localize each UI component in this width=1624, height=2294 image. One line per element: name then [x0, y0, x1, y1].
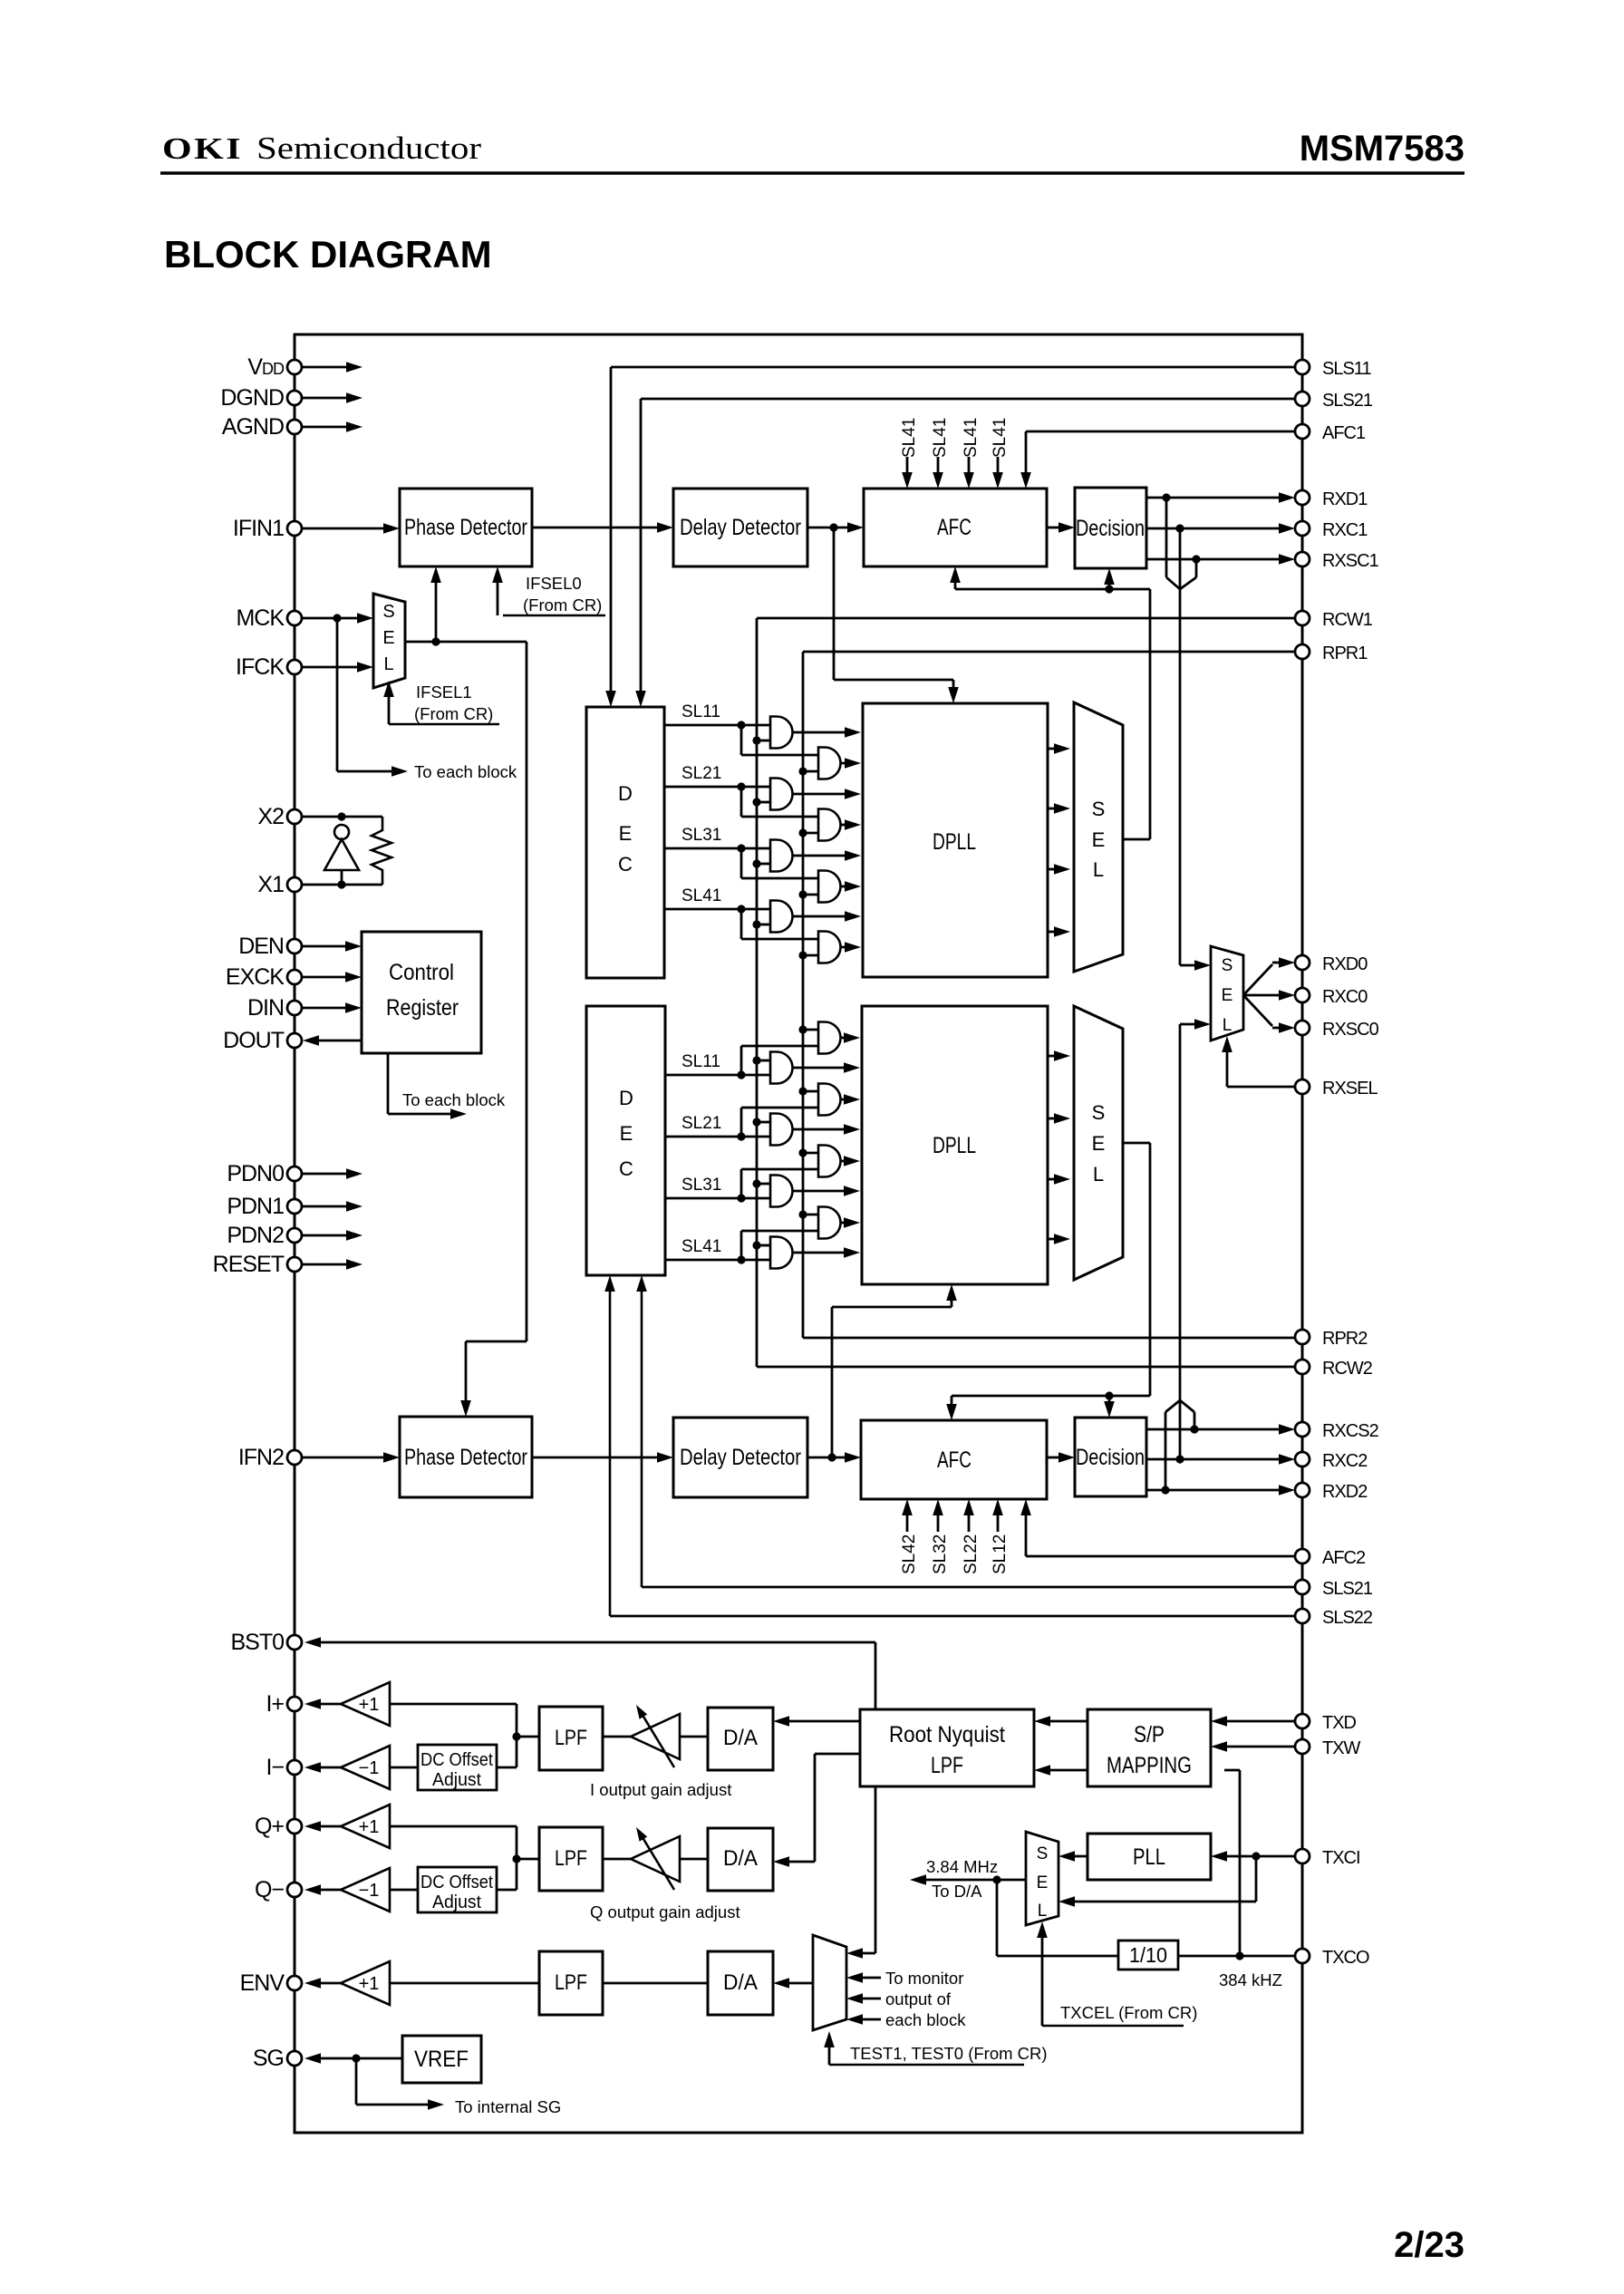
wire EXCK to CR [302, 976, 348, 979]
block SP MAPPING [1087, 1709, 1211, 1786]
mux SEL 2 [1074, 1006, 1123, 1280]
gate AND2 b2 [770, 1114, 793, 1146]
wire DPLL2 to SEL2 2 [1048, 1118, 1057, 1120]
svg-text:TXCI: TXCI [1322, 1848, 1360, 1868]
svg-text:Phase Detector: Phase Detector [404, 1445, 527, 1470]
wire PDN0 stub [302, 1173, 347, 1176]
wire PLL to SELTX [1072, 1855, 1087, 1858]
junction RPR rail g4 b1 [798, 951, 807, 959]
wire AFC1 net [1026, 431, 1295, 433]
pin SLS22 [1295, 1609, 1310, 1623]
wire AND1 out b1 [793, 731, 847, 734]
svg-text:E: E [1037, 1873, 1049, 1892]
svg-text:MAPPING: MAPPING [1107, 1753, 1192, 1778]
svg-text:Q+: Q+ [255, 1814, 284, 1839]
pin PDN2 [287, 1228, 302, 1243]
gate AND4 b2 [770, 1237, 793, 1269]
junction RPR rail g2 b2 [798, 1087, 807, 1095]
block Phase Detector 2 [400, 1417, 532, 1497]
junction RCW rail g3 b1 [752, 859, 760, 867]
wire PD2 to DD2 [532, 1457, 660, 1459]
svg-text:Phase Detector: Phase Detector [404, 515, 527, 540]
junction DD2 out [827, 1453, 836, 1461]
wire +1 ENV to pin [318, 1982, 341, 1985]
svg-text:Register: Register [386, 995, 459, 1021]
amp I gain [631, 1714, 680, 1759]
amp +1 Q [341, 1805, 390, 1848]
pin RXC0 [1295, 988, 1310, 1002]
pin X1 [287, 877, 302, 892]
gate OR3 b2 [818, 1146, 841, 1177]
wire AFC2 net [1026, 1555, 1295, 1558]
block DPLL 1 [863, 703, 1048, 977]
svg-text:To internal SG: To internal SG [455, 2097, 561, 2116]
wire gain amp to DA I [680, 1736, 708, 1738]
wire X2 line [302, 816, 382, 818]
svg-text:384 kHZ: 384 kHZ [1219, 1970, 1282, 1989]
svg-text:IFSEL0: IFSEL0 [526, 574, 582, 593]
wire OR3 out b2 [841, 1160, 847, 1163]
gate OR1 b1 [818, 748, 841, 779]
svg-text:SL41: SL41 [931, 418, 950, 458]
svg-text:IFIN1: IFIN1 [233, 516, 284, 541]
block Decision 1 [1075, 488, 1146, 568]
wire X1 line [302, 884, 382, 886]
wire RPR stub g4 b1 [803, 954, 818, 957]
svg-text:SLS21: SLS21 [1322, 391, 1373, 411]
wire RPR stub g4 b2 [803, 1214, 818, 1216]
wire RPR stub g3 b2 [803, 1152, 818, 1155]
svg-text:OKI: OKI [162, 132, 243, 166]
amp +1 ENV [341, 1961, 390, 2005]
wire ENV to LPF [390, 1982, 539, 1985]
amp Q gain [631, 1836, 680, 1882]
svg-text:SL41: SL41 [962, 418, 981, 458]
mux SEL 0 [1211, 946, 1243, 1041]
svg-text:SL31: SL31 [681, 826, 721, 845]
wire DD1 out to DPLL1 top [833, 528, 836, 680]
gate AND3 b2 [770, 1176, 793, 1207]
svg-text:I−: I− [266, 1755, 284, 1780]
wire AFC2 to Decision2 [1047, 1457, 1061, 1459]
svg-text:LPF: LPF [931, 1753, 963, 1778]
wire RESET stub [302, 1263, 347, 1266]
svg-text:PDN0: PDN0 [227, 1161, 284, 1186]
junction RCW rail g3 b2 [752, 1179, 760, 1187]
pin SLS11 [1295, 360, 1310, 374]
wire rx1 merge left leg [1165, 498, 1168, 577]
svg-text:IFSEL1: IFSEL1 [416, 682, 472, 702]
block Decision 2 [1075, 1418, 1146, 1496]
junction RCW rail g4 b1 [752, 920, 760, 928]
wire TXW to SP [1224, 1746, 1295, 1748]
wire SL21 line b2 [665, 1136, 770, 1138]
block DPLL 2 [862, 1006, 1048, 1284]
block DEC 2 [586, 1006, 665, 1275]
svg-text:DPLL: DPLL [933, 1133, 976, 1158]
wire Q branch to LPF [517, 1858, 539, 1861]
svg-text:RXD1: RXD1 [1322, 489, 1368, 509]
gate OR3 b1 [818, 871, 841, 903]
svg-text:−1: −1 [359, 1758, 380, 1778]
pin RXC1 [1295, 521, 1310, 536]
svg-text:I+: I+ [266, 1691, 284, 1717]
svg-text:+1: +1 [359, 1974, 380, 1994]
svg-text:L: L [1093, 858, 1104, 881]
wire SL21 jog to OR b2 [740, 1108, 743, 1137]
junction RPR rail g3 b1 [798, 890, 807, 898]
svg-text:D: D [618, 782, 633, 805]
wire SL22 stub [968, 1512, 971, 1532]
pin TXW [1295, 1739, 1310, 1754]
pin RCW2 [1295, 1360, 1310, 1374]
svg-text:AFC2: AFC2 [1322, 1548, 1366, 1568]
svg-text:SL42: SL42 [900, 1534, 919, 1574]
wire DPLL2 to SEL2 1 [1048, 1055, 1057, 1058]
wire DD1 to AFC1 [807, 527, 850, 529]
svg-text:L: L [1223, 1016, 1232, 1035]
wire RNLPF to DA Q [815, 1753, 860, 1756]
svg-text:Delay Detector: Delay Detector [680, 515, 801, 540]
pin Q+ [287, 1819, 302, 1834]
svg-text:2/23: 2/23 [1394, 2225, 1464, 2265]
pin BST0 [287, 1635, 302, 1650]
wire AND4 out b1 [793, 915, 847, 918]
block AFC 2 [861, 1420, 1047, 1499]
pin RXSC0 [1295, 1021, 1310, 1035]
block PLL [1087, 1834, 1211, 1880]
pin RXCS2 [1295, 1422, 1310, 1437]
block Delay Detector 2 [673, 1418, 807, 1497]
pin X2 [287, 809, 302, 824]
svg-text:Control: Control [389, 960, 454, 985]
wire SL11 jog to OR b2 [740, 1046, 743, 1075]
wire SEL clock out [405, 641, 527, 644]
svg-text:SL21: SL21 [681, 1114, 721, 1133]
wire monitor stub 1 [860, 1977, 881, 1979]
wire DPLL1 to SEL1 3 [1048, 868, 1057, 871]
svg-text:L: L [383, 654, 393, 674]
wire rx1 merge right leg [1195, 559, 1198, 577]
wire DPLL1 to SEL1 1 [1048, 748, 1057, 750]
inverter triangle [324, 839, 359, 870]
wire SL11 line b1 [664, 724, 770, 727]
junction SL31 b1 [737, 844, 745, 852]
amp +1 I [341, 1682, 390, 1726]
wire RNLPF to DA I [787, 1720, 860, 1723]
svg-text:SL41: SL41 [681, 1237, 721, 1256]
svg-text:−1: −1 [359, 1881, 380, 1901]
wire rx2 split centre [1179, 1400, 1182, 1459]
svg-text:Adjust: Adjust [432, 1770, 481, 1790]
wire RCW stub g2 b2 [757, 1121, 770, 1124]
wire SLS11 net [611, 366, 1295, 369]
svg-text:TXCEL (From CR): TXCEL (From CR) [1060, 2003, 1197, 2022]
svg-text:Root Nyquist: Root Nyquist [889, 1722, 1005, 1747]
junction RXC2 [1175, 1455, 1184, 1463]
mux SEL TX [1026, 1832, 1058, 1925]
pin RPR2 [1295, 1330, 1310, 1344]
svg-text:SLS21: SLS21 [1322, 1579, 1373, 1599]
pin TXD [1295, 1714, 1310, 1728]
block LPF ENV [539, 1951, 603, 2015]
svg-text:S/P: S/P [1134, 1722, 1165, 1747]
junction RPR rail g4 b2 [798, 1210, 807, 1218]
wire AND4 out b2 [793, 1252, 847, 1254]
gate AND1 b1 [770, 717, 793, 749]
svg-text:SL31: SL31 [681, 1176, 721, 1195]
wire DPLL2 to SEL2 3 [1048, 1178, 1057, 1181]
wire SL11 jog to OR b1 [740, 725, 743, 755]
svg-text:SL11: SL11 [681, 1052, 720, 1071]
svg-text:S: S [382, 602, 394, 622]
wire RPR stub g1 b1 [803, 770, 818, 773]
svg-text:TXCO: TXCO [1322, 1948, 1369, 1968]
junction SL21 b1 [737, 782, 745, 790]
junction MCK [333, 614, 341, 622]
wire AND3 out b2 [793, 1190, 847, 1193]
svg-text:IFCK: IFCK [236, 654, 285, 680]
pin RXC2 [1295, 1452, 1310, 1466]
junction SEL clock out [431, 637, 440, 645]
svg-text:E: E [382, 628, 394, 648]
wire SEL1 feedback [1123, 838, 1150, 841]
wire IFCK to SEL [302, 666, 360, 669]
wire RNLPF to TEST mux [875, 1786, 877, 1953]
svg-text:RXSEL: RXSEL [1322, 1079, 1377, 1099]
svg-text:LPF: LPF [555, 1846, 587, 1871]
wire RPR stub g3 b1 [803, 894, 818, 896]
wire TEST underline arrow [829, 2064, 1024, 2066]
wire OR1 out b2 [841, 1037, 847, 1040]
svg-text:S: S [1037, 1844, 1049, 1863]
wire SL21 line b1 [664, 786, 770, 789]
svg-text:C: C [618, 853, 633, 876]
svg-text:AFC: AFC [937, 1447, 971, 1473]
svg-text:Adjust: Adjust [432, 1892, 481, 1912]
block Control Register [362, 932, 481, 1053]
svg-text:VREF: VREF [414, 2047, 469, 2072]
svg-text:each block: each block [885, 2010, 966, 2029]
wire AGND stub [302, 426, 347, 429]
wire AND2 out b2 [793, 1128, 847, 1131]
svg-text:E: E [1092, 1132, 1106, 1155]
block Delay Detector 1 [673, 489, 807, 566]
svg-text:E: E [1222, 986, 1233, 1005]
wire monitor stub 3 [860, 2018, 881, 2021]
wire OR2 out b1 [841, 824, 847, 827]
junction X1 [337, 880, 345, 888]
wire SL32 stub [937, 1512, 940, 1532]
svg-text:SL41: SL41 [681, 886, 721, 905]
wire RPR stub g2 b2 [803, 1090, 818, 1093]
svg-text:L: L [1038, 1902, 1048, 1921]
pin RXD0 [1295, 955, 1310, 970]
gate AND3 b1 [770, 840, 793, 872]
wire SL21 jog to OR b1 [740, 787, 743, 817]
junction SL21 b2 [737, 1132, 745, 1140]
svg-text:MSM7583: MSM7583 [1300, 129, 1464, 169]
pin DGND [287, 391, 302, 405]
pin PDN0 [287, 1166, 302, 1181]
svg-text:TXD: TXD [1322, 1713, 1357, 1733]
wire SP to RNLPF 2 [1048, 1769, 1087, 1772]
wire AND2 out b1 [793, 793, 847, 796]
svg-text:(From CR): (From CR) [523, 595, 602, 615]
pin DEN [287, 939, 302, 953]
junction RXCS2 [1190, 1425, 1198, 1433]
wire DPLL1 to SEL1 2 [1048, 808, 1057, 810]
svg-text:SL22: SL22 [962, 1534, 981, 1574]
chip frame [295, 334, 1302, 2133]
wire RCW stub g3 b2 [757, 1183, 770, 1186]
wire BST0 net [318, 1641, 875, 1644]
pin Q&#8722; [287, 1883, 302, 1897]
pin IFIN1 [287, 521, 302, 536]
wire MCK to each block [336, 618, 339, 771]
svg-text:SLS22: SLS22 [1322, 1608, 1373, 1628]
wire I branch to LPF [517, 1736, 539, 1738]
wire IFSEL0 underline arrow [503, 615, 605, 616]
wire OR1 out b1 [841, 762, 847, 765]
wire DCO I to -1 [390, 1766, 418, 1769]
block VREF [402, 2036, 481, 2083]
junction RCW rail g1 b1 [752, 736, 760, 744]
wire CR to DOUT [316, 1040, 362, 1042]
wire mux to DA ENV [787, 1982, 813, 1985]
wire OR2 out b2 [841, 1099, 847, 1101]
wire Decision1 to RXD1 [1146, 497, 1281, 499]
svg-text:RPR2: RPR2 [1322, 1329, 1368, 1349]
wire IFIN1 to PD1 [302, 528, 386, 530]
wire TXCI to SELTX [1255, 1856, 1258, 1902]
wire SELTX out [923, 1879, 1026, 1882]
wire 384kHz up to SP [1239, 1770, 1242, 1956]
wire AFC1 to Decision1 [1047, 527, 1061, 529]
junction SL31 b2 [737, 1194, 745, 1202]
block DA ENV [708, 1951, 773, 2015]
wire RCW1 rail [757, 617, 1295, 620]
pin AFC2 [1295, 1549, 1310, 1563]
block DEC 1 [586, 707, 664, 978]
wire SL41 line b2 [665, 1259, 770, 1262]
wire SELTX out to 1/10 [996, 1880, 999, 1956]
gate OR2 b2 [818, 1084, 841, 1116]
wire SLS21 net [641, 398, 1295, 401]
junction SG branch [352, 2054, 360, 2062]
junction feedback Decision2 [1105, 1391, 1113, 1399]
svg-text:C: C [619, 1157, 633, 1180]
wire rx2 bus down [1179, 1024, 1182, 1400]
svg-text:To monitor: To monitor [885, 1969, 963, 1988]
wire SL12 stub [997, 1512, 1000, 1532]
wire SEL out to PD1 [435, 579, 438, 642]
svg-text:IFN2: IFN2 [238, 1445, 284, 1470]
svg-text:X1: X1 [257, 872, 284, 897]
block Root Nyquist LPF [860, 1709, 1034, 1786]
svg-text:SL32: SL32 [931, 1534, 950, 1574]
wire SLS21 lower net [641, 1280, 643, 1587]
block Phase Detector 1 [400, 489, 532, 566]
wire RPR stub g2 b1 [803, 832, 818, 835]
amp -1 Q [341, 1868, 390, 1912]
wire I bottom branch [516, 1737, 518, 1767]
wire DPLL2 to SEL2 4 [1048, 1238, 1057, 1241]
pin IFCK [287, 660, 302, 674]
svg-text:RCW1: RCW1 [1322, 610, 1373, 630]
wire TXCEL underline arrow [1042, 2025, 1184, 2027]
svg-text:To D/A: To D/A [932, 1882, 982, 1901]
junction RCW rail g2 b1 [752, 798, 760, 806]
wire SL31 line b1 [664, 847, 770, 850]
wire SP to RNLPF 1 [1048, 1720, 1087, 1723]
wire rx2 split left leg [1165, 1400, 1180, 1412]
svg-text:SG: SG [253, 2046, 284, 2071]
svg-text:RXD2: RXD2 [1322, 1482, 1368, 1502]
svg-text:MCK: MCK [236, 605, 285, 631]
header rule [160, 171, 1464, 174]
svg-text:RPR1: RPR1 [1322, 644, 1368, 663]
wire DPLL1 to SEL1 4 [1048, 931, 1057, 934]
junction RXC1 [1175, 524, 1184, 532]
svg-text:LPF: LPF [555, 1970, 587, 1995]
junction RPR rail g1 b2 [798, 1025, 807, 1033]
svg-text:DIN: DIN [247, 995, 284, 1021]
wire rx1 bus down to SEL0 [1179, 528, 1182, 965]
svg-text:DGND: DGND [220, 385, 284, 411]
block divider 1/10 [1118, 1941, 1178, 1970]
junction SELTX out [992, 1875, 1000, 1883]
gate OR4 b1 [818, 932, 841, 963]
pin AGND [287, 420, 302, 434]
pin AFC1 [1295, 424, 1310, 439]
wire RXSEL net [1227, 1086, 1295, 1089]
svg-text:E: E [620, 1122, 633, 1145]
wire I top branch [390, 1703, 517, 1706]
junction RXSC1 [1192, 555, 1200, 563]
gate AND1 b2 [770, 1052, 793, 1084]
svg-text:SL12: SL12 [991, 1534, 1010, 1574]
junction RPR rail g1 b1 [798, 767, 807, 775]
svg-text:To each block: To each block [414, 762, 517, 781]
svg-text:Q−: Q− [255, 1877, 284, 1902]
pin RXSEL [1295, 1079, 1310, 1094]
svg-text:RESET: RESET [213, 1252, 285, 1277]
wire AND1 out b2 [793, 1067, 847, 1070]
wire VREF to SG [318, 2057, 402, 2060]
wire LPF ENV to DA [603, 1982, 708, 1985]
svg-text:3.84 MHz: 3.84 MHz [926, 1857, 998, 1876]
svg-text:RXD0: RXD0 [1322, 954, 1368, 974]
wire VDD stub [302, 366, 347, 369]
junction RPR rail g2 b1 [798, 828, 807, 837]
wire DIN to CR [302, 1007, 348, 1010]
svg-text:E: E [1092, 828, 1106, 851]
wire DGND stub [302, 397, 347, 400]
wire TXCI net [1224, 1855, 1295, 1858]
wire SL41 jog to OR b1 [740, 909, 743, 939]
svg-text:RXC2: RXC2 [1322, 1451, 1368, 1471]
svg-text:PDN2: PDN2 [227, 1223, 284, 1248]
wire AND3 out b1 [793, 855, 847, 857]
block LPF Q [539, 1827, 603, 1891]
wire TXD to SP [1224, 1720, 1295, 1723]
wire SL31 line b2 [665, 1197, 770, 1200]
wire OR4 out b2 [841, 1222, 847, 1224]
wire to internal SG [355, 2058, 358, 2105]
svg-text:RCW2: RCW2 [1322, 1359, 1373, 1379]
svg-text:SL21: SL21 [681, 764, 721, 783]
